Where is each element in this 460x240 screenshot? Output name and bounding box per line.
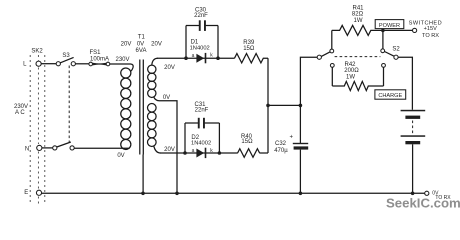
svg-text:k: k [210, 52, 213, 58]
svg-text:C32: C32 [275, 141, 287, 147]
svg-text:1N4002: 1N4002 [190, 45, 210, 51]
svg-text:1W: 1W [346, 74, 355, 80]
svg-text:S3: S3 [62, 53, 70, 59]
svg-text:20V: 20V [164, 147, 175, 153]
svg-text:200Ω: 200Ω [344, 68, 359, 74]
svg-text:R42: R42 [344, 62, 356, 68]
svg-text:0V: 0V [117, 153, 124, 159]
svg-text:6VA: 6VA [136, 48, 147, 54]
svg-text:22nF: 22nF [195, 107, 209, 113]
svg-text:+: + [290, 134, 294, 140]
svg-text:SeekIC.com: SeekIC.com [386, 195, 460, 210]
svg-text:POWER: POWER [379, 23, 400, 29]
svg-text:100mA: 100mA [90, 57, 109, 63]
svg-text:20V: 20V [164, 65, 175, 71]
svg-text:L: L [23, 62, 27, 68]
svg-text:SK2: SK2 [31, 49, 43, 55]
svg-text:20V: 20V [151, 42, 162, 48]
svg-text:a: a [192, 53, 195, 59]
svg-text:A C: A C [15, 110, 25, 116]
svg-text:E: E [24, 190, 28, 196]
svg-text:+15V: +15V [424, 26, 437, 32]
svg-text:CHARGE: CHARGE [378, 93, 402, 99]
svg-text:15Ω: 15Ω [243, 46, 255, 52]
svg-text:15Ω: 15Ω [241, 139, 253, 145]
svg-text:N: N [25, 146, 29, 152]
svg-text:1N4002: 1N4002 [191, 140, 211, 146]
svg-text:S2: S2 [392, 47, 400, 53]
svg-text:0V: 0V [137, 42, 144, 48]
svg-text:20V: 20V [121, 42, 132, 48]
svg-text:230V: 230V [115, 57, 129, 63]
svg-text:22nF: 22nF [194, 13, 208, 19]
svg-text:T1: T1 [138, 35, 146, 41]
svg-text:0V: 0V [163, 95, 170, 101]
svg-text:470µ: 470µ [274, 148, 288, 154]
svg-text:FS1: FS1 [89, 50, 101, 56]
svg-text:1W: 1W [354, 18, 363, 24]
svg-text:R41: R41 [352, 6, 364, 12]
svg-text:TO RX: TO RX [422, 33, 439, 39]
svg-text:a: a [192, 148, 195, 154]
svg-text:82Ω: 82Ω [352, 12, 364, 18]
